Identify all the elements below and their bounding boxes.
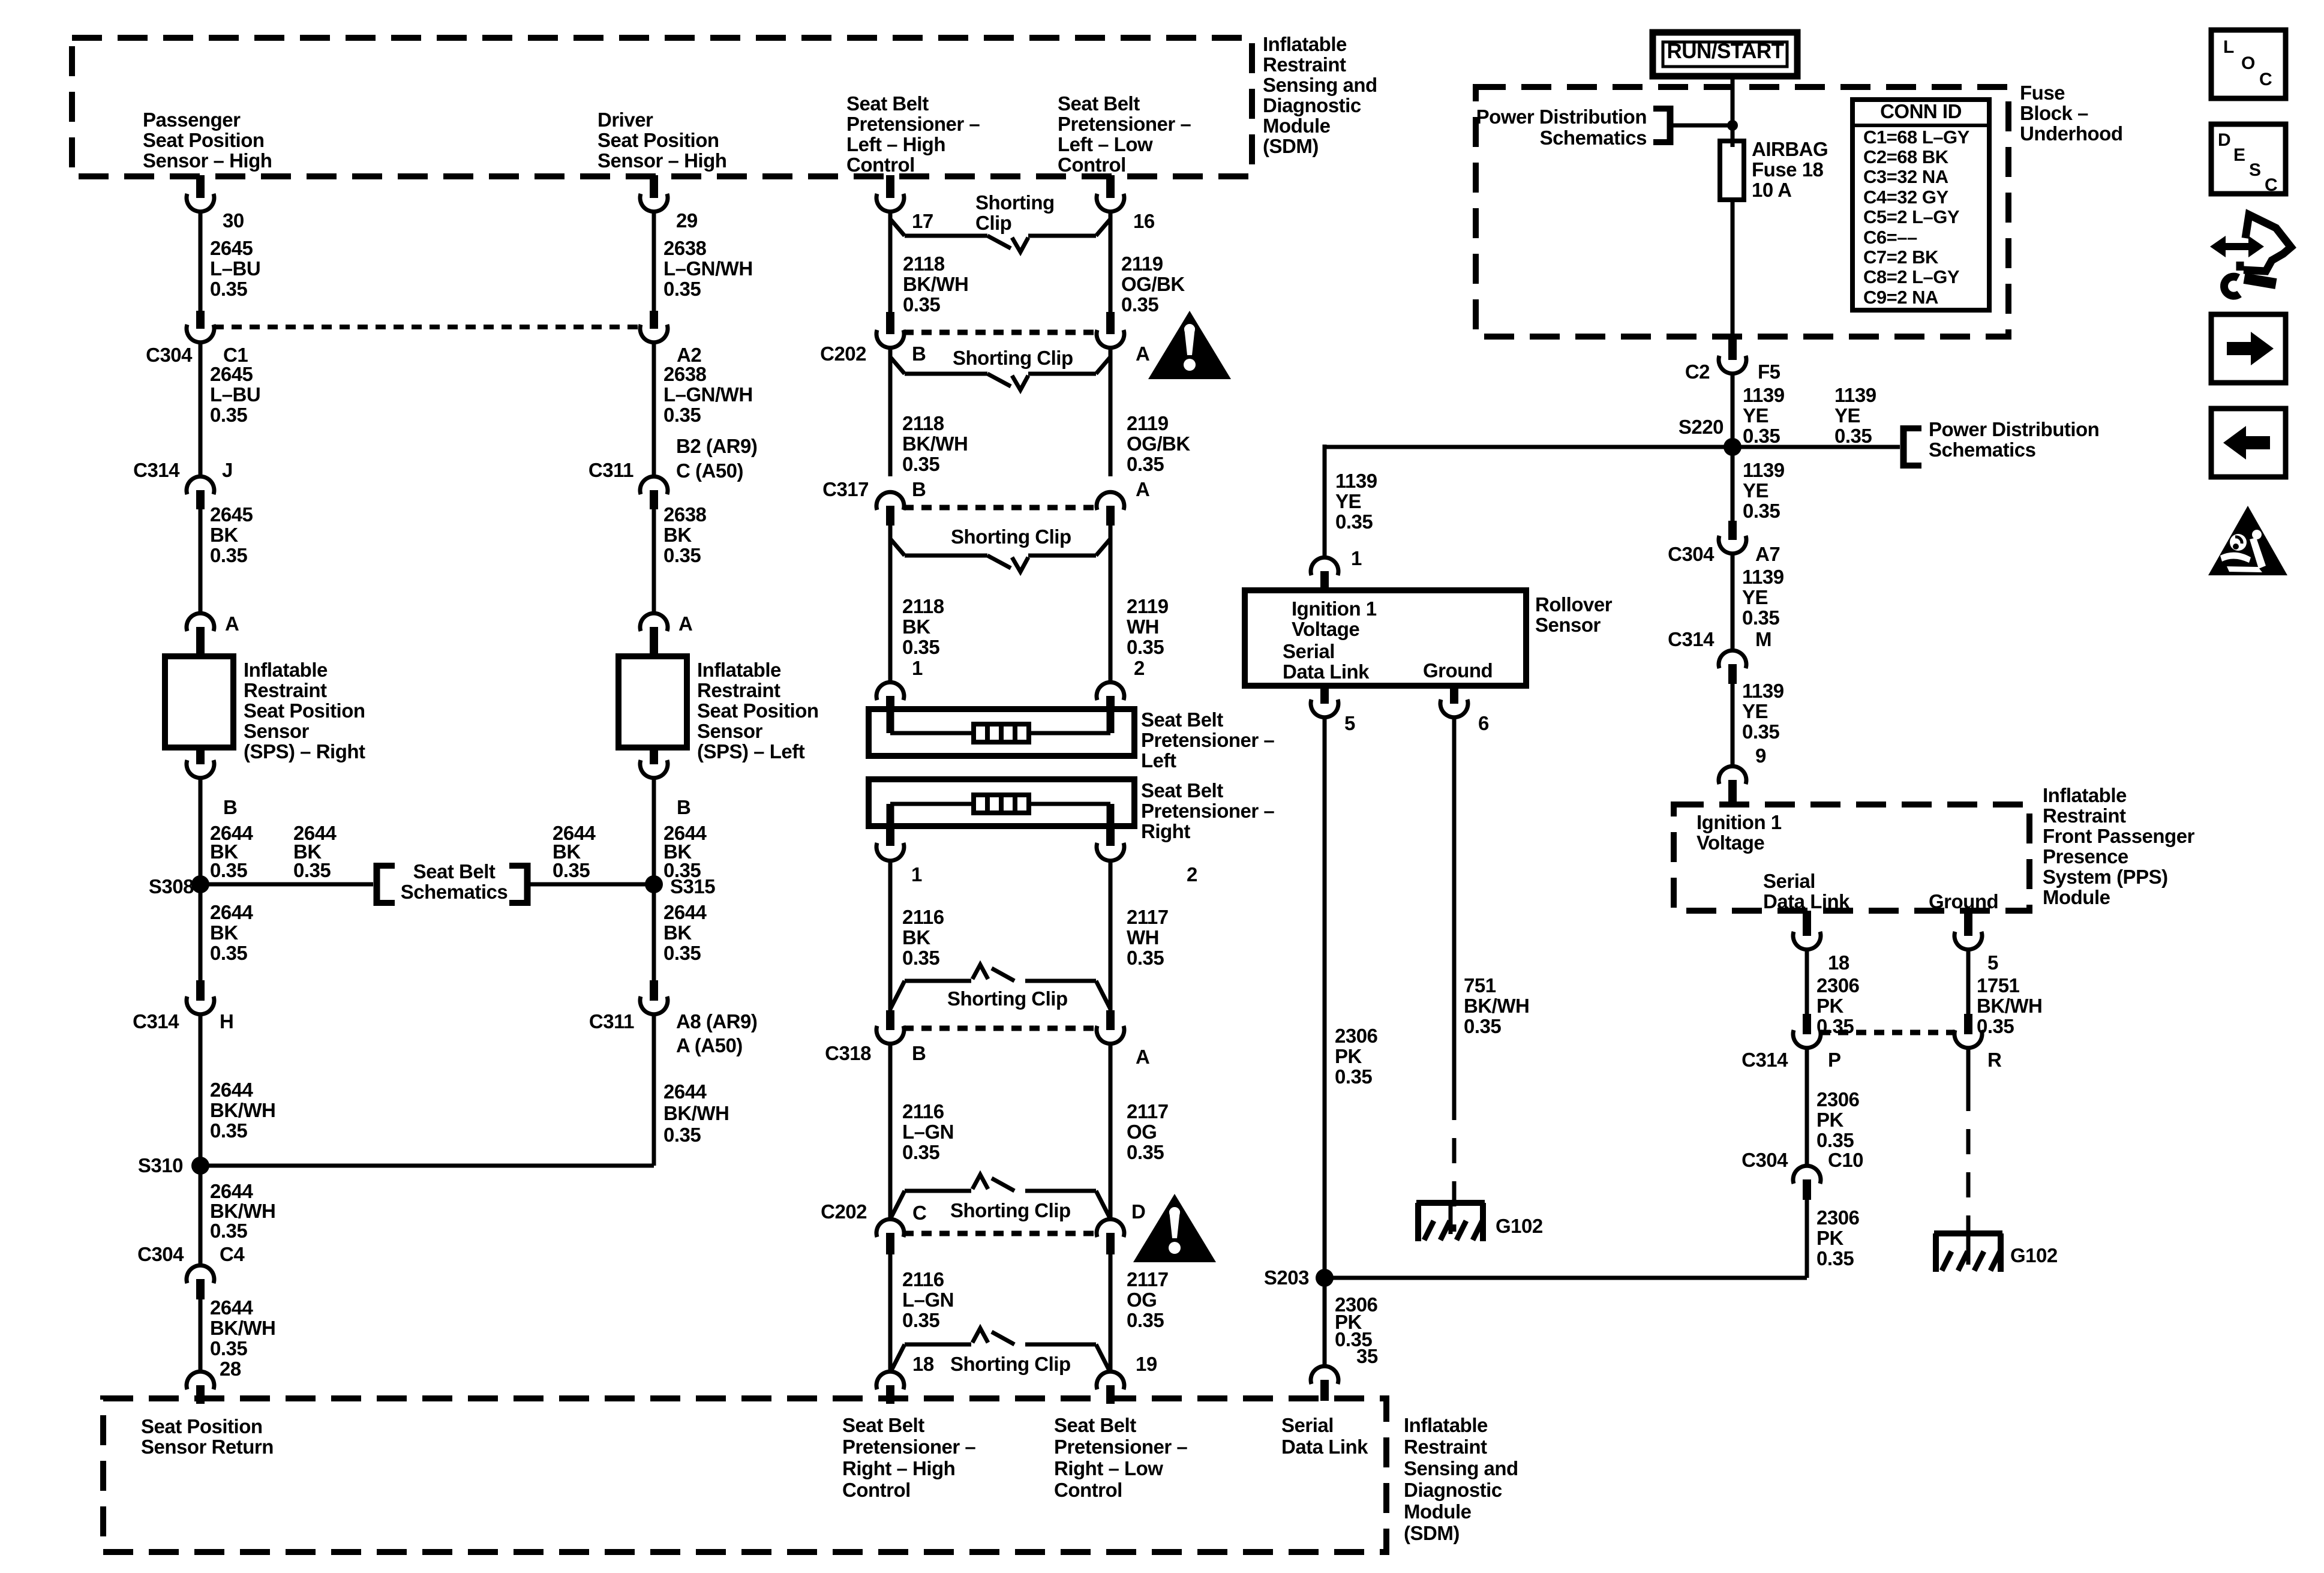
label: Ignition 1 Voltage (PPS) xyxy=(1697,811,1782,854)
svg-text:2638: 2638 xyxy=(663,503,707,526)
svg-text:Shorting Clip: Shorting Clip xyxy=(951,526,1071,548)
wire label 2644 BK 0.35 (below S315) xyxy=(663,901,707,964)
connector line C318 (dashed) xyxy=(903,1026,1097,1031)
svg-text:0.35: 0.35 xyxy=(1742,721,1779,743)
shorting clip symbol (above C202 C-D) xyxy=(890,1175,1110,1219)
pin label B (C318) xyxy=(912,1042,926,1064)
wire: down to rollover sensor pin 1 xyxy=(1323,445,1327,558)
svg-text:Passenger: Passenger xyxy=(143,109,241,131)
svg-text:35: 35 xyxy=(1356,1345,1378,1367)
svg-text:YE: YE xyxy=(1834,404,1860,427)
label C318 xyxy=(825,1042,871,1064)
svg-text:AIRBAG: AIRBAG xyxy=(1752,138,1828,160)
svg-text:Schematics: Schematics xyxy=(401,881,508,903)
svg-text:C: C xyxy=(2259,70,2272,89)
label: Inflatable Restraint Seat Position Sensor (SPS) - Left xyxy=(697,659,819,763)
svg-text:Rollover: Rollover xyxy=(1535,593,1613,616)
wire label 2638 BK 0.35 xyxy=(663,503,707,566)
svg-text:2119: 2119 xyxy=(1127,412,1169,434)
svg-text:2645: 2645 xyxy=(210,363,253,385)
label: Ground (PPS) xyxy=(1929,890,1998,912)
svg-text:Serial: Serial xyxy=(1763,870,1815,892)
pin label 5 (rollover) xyxy=(1344,712,1355,734)
connector: PPS pin 18 xyxy=(1793,911,1821,950)
wire: C317 B down to pretensioner left pin 1 xyxy=(888,526,893,682)
svg-text:0.35: 0.35 xyxy=(1743,425,1780,447)
svg-text:Ground: Ground xyxy=(1929,890,1998,912)
pin label F5 xyxy=(1758,361,1780,383)
connector line C317 (dashed) xyxy=(903,505,1097,511)
svg-text:YE: YE xyxy=(1742,700,1768,722)
wire label 2119 OG/BK 0.35 (middle) xyxy=(1127,412,1190,475)
svg-text:Control: Control xyxy=(846,154,915,176)
svg-text:B: B xyxy=(912,343,926,365)
wire label 2119 WH 0.35 xyxy=(1127,595,1169,658)
svg-text:B: B xyxy=(912,1042,926,1064)
svg-text:Restraint: Restraint xyxy=(2043,804,2126,827)
svg-text:2118: 2118 xyxy=(903,253,945,275)
wire: 2644 BK from SPS left B to S315 xyxy=(652,778,656,884)
svg-text:Sensor: Sensor xyxy=(697,720,763,742)
svg-text:C4=32 GY: C4=32 GY xyxy=(1863,187,1948,208)
svg-text:2644: 2644 xyxy=(210,901,254,923)
label: Power Distribution Schematics (right) xyxy=(1929,418,2099,461)
connector C311 pin B2/C xyxy=(640,476,668,509)
off-page bracket: power distribution (right) xyxy=(1903,425,1921,469)
svg-text:BK: BK xyxy=(902,926,930,948)
connector: pretensioner left pin 2 xyxy=(1097,682,1124,709)
wire label 2644 BK/WH 0.35 (bottom driver) xyxy=(663,1080,729,1146)
svg-text:A: A xyxy=(225,613,239,635)
svg-text:BK/WH: BK/WH xyxy=(1977,995,2042,1017)
connector: SPS right pin B xyxy=(187,748,214,778)
label: Shorting Clip (first) xyxy=(975,191,1055,234)
svg-text:C304: C304 xyxy=(146,344,193,366)
label C311 (driver lower) xyxy=(589,1010,634,1032)
wire label 2117 OG 0.35 (lower) xyxy=(1127,1268,1169,1331)
svg-text:2306: 2306 xyxy=(1816,974,1860,996)
label C202 (upper) xyxy=(820,343,866,365)
connector: pretensioner right pin 2 xyxy=(1097,826,1124,861)
svg-text:751: 751 xyxy=(1464,974,1496,996)
module box: Inflatable Restraint Sensing and Diagnostic Module (SDM) bottom, dashed outline xyxy=(103,1398,1386,1552)
fuse: AIRBAG Fuse 18 10A xyxy=(1720,141,1744,337)
wire: C202 A down to C317 A xyxy=(1109,348,1113,476)
wire: 2638 BK from C311 to SPS left pin A xyxy=(652,509,656,613)
wire: 2644 BK from SPS right B to S308 xyxy=(199,778,203,884)
svg-text:A7: A7 xyxy=(1755,543,1780,565)
connector line C304 (dashed) between C1 and A2 xyxy=(214,325,641,329)
svg-text:Pretensioner –: Pretensioner – xyxy=(1058,113,1191,135)
pin label B (SPS left) xyxy=(677,796,690,818)
pin label 1 (pretensioner left) xyxy=(912,657,923,679)
connector C304 pin C1 xyxy=(187,311,214,343)
junction S310 xyxy=(191,1157,209,1175)
svg-text:P: P xyxy=(1828,1049,1841,1071)
label: Ground (rollover box) xyxy=(1423,659,1493,682)
svg-text:C314: C314 xyxy=(1742,1049,1788,1071)
svg-text:Seat Belt: Seat Belt xyxy=(842,1414,924,1436)
svg-text:Left – Low: Left – Low xyxy=(1058,133,1153,155)
wire label 2644 BK 0.35 (above S308) xyxy=(210,822,254,881)
pin label A (C317) xyxy=(1136,478,1149,500)
wire: SDM pin 16 down to C202 A xyxy=(1109,212,1113,312)
svg-text:C10: C10 xyxy=(1828,1149,1863,1171)
svg-text:29: 29 xyxy=(676,209,698,232)
svg-text:30: 30 xyxy=(223,209,244,232)
pin label 9 (PPS) xyxy=(1755,745,1766,767)
pin label A8 (AR9) xyxy=(676,1010,757,1032)
wire: S310 down to C304 C4 xyxy=(199,1166,203,1265)
label: Seat Position Sensor Return xyxy=(141,1415,274,1458)
svg-text:YE: YE xyxy=(1335,490,1361,512)
connector: SDM pin 18 (bottom) xyxy=(876,1371,904,1404)
svg-text:0.35: 0.35 xyxy=(1742,607,1779,629)
svg-text:2638: 2638 xyxy=(663,363,707,385)
wire label 2117 WH 0.35 xyxy=(1127,906,1169,969)
svg-text:C202: C202 xyxy=(821,1200,867,1223)
label: Seat Belt Schematics xyxy=(401,860,508,903)
svg-text:Power Distribution: Power Distribution xyxy=(1929,418,2099,440)
label: Fuse Block - Underhood xyxy=(2020,82,2122,145)
icon: airbag caution triangle xyxy=(2208,506,2287,575)
svg-text:Right – High: Right – High xyxy=(842,1457,955,1479)
connector C202 pin D xyxy=(1097,1219,1124,1254)
wire label 2644 BK/WH 0.35 (bottom passenger) xyxy=(210,1296,275,1359)
svg-text:C9=2 NA: C9=2 NA xyxy=(1863,287,1938,308)
label: Ignition 1 Voltage (rollover box) xyxy=(1292,598,1377,640)
svg-text:Ignition 1: Ignition 1 xyxy=(1292,598,1377,620)
wire: 2644 BK/WH from C304 C4 to SDM pin 28 xyxy=(199,1299,203,1371)
svg-text:1139: 1139 xyxy=(1335,470,1377,492)
svg-text:S: S xyxy=(2249,160,2261,180)
label: Seat Belt Pretensioner - Right - Low Control xyxy=(1054,1414,1187,1501)
svg-text:L–GN/WH: L–GN/WH xyxy=(663,383,753,406)
connector: rollover pin 5 xyxy=(1311,686,1338,718)
wire label 1139 YE 0.35 (above S220 right) xyxy=(1834,384,1876,447)
connector: SDM pin 35 (bottom) xyxy=(1311,1366,1338,1401)
wire label 2644 BK 0.35 (below S308) xyxy=(210,901,254,964)
connector: SPS left pin A xyxy=(640,613,668,656)
wire label 2306 PK 0.35 (serial data link) xyxy=(1335,1025,1378,1088)
wire label 1139 YE 0.35 (M-9) xyxy=(1742,680,1784,743)
svg-text:H: H xyxy=(220,1010,233,1032)
svg-text:C202: C202 xyxy=(820,343,866,365)
svg-text:Sensing and: Sensing and xyxy=(1263,74,1377,96)
svg-text:Shorting Clip: Shorting Clip xyxy=(953,347,1073,369)
wire: SDM pin 17 down to C202 B xyxy=(888,212,893,312)
svg-text:Inflatable: Inflatable xyxy=(244,659,328,681)
label: Inflatable Restraint Seat Position Sensor (SPS) - Right xyxy=(244,659,365,763)
svg-text:0.35: 0.35 xyxy=(1121,293,1158,316)
pin label M xyxy=(1755,628,1771,650)
pin label A7 xyxy=(1755,543,1780,565)
wire label 2645 BK 0.35 xyxy=(210,503,253,566)
wire label 2117 OG 0.35 (upper) xyxy=(1127,1100,1169,1163)
svg-text:Data Link: Data Link xyxy=(1283,661,1370,683)
label: Inflatable Restraint Sensing and Diagnostic Module (SDM) xyxy=(1263,33,1377,157)
svg-text:Serial: Serial xyxy=(1281,1414,1334,1436)
wire label 751 BK/WH 0.35 xyxy=(1464,974,1529,1037)
label: Inflatable Restraint Front Passenger Presence System (PPS) Module xyxy=(2043,784,2195,908)
svg-text:Seat Belt: Seat Belt xyxy=(846,92,929,115)
svg-text:Power Distribution: Power Distribution xyxy=(1476,106,1647,128)
svg-text:G102: G102 xyxy=(2010,1244,2058,1266)
svg-text:System (PPS): System (PPS) xyxy=(2043,866,2168,888)
svg-text:R: R xyxy=(1987,1049,2002,1071)
svg-text:OG/BK: OG/BK xyxy=(1121,273,1185,295)
pin label C (C202) xyxy=(912,1202,926,1224)
svg-text:2644: 2644 xyxy=(663,901,707,923)
connector: SDM pin 30 xyxy=(187,175,214,212)
fuse block box (dashed): Fuse Block - Underhood xyxy=(1476,87,2008,337)
svg-text:WH: WH xyxy=(1127,926,1159,948)
wire: 2645 BK from C314 J to SPS right pin A xyxy=(199,509,203,613)
pin label 1 (rollover) xyxy=(1351,547,1362,569)
svg-text:Restraint: Restraint xyxy=(1263,53,1346,76)
svg-text:0.35: 0.35 xyxy=(1816,1247,1854,1269)
label: Shorting Clip (second) xyxy=(953,347,1073,369)
wire: S203 down to SDM pin 35 xyxy=(1323,1278,1327,1366)
warning triangle (lower) xyxy=(1133,1194,1216,1262)
label C311 (driver upper) xyxy=(588,459,633,481)
label: Rollover Sensor xyxy=(1535,593,1613,636)
connector C311 pin A8/A xyxy=(640,980,668,1014)
wire: PPS 5 down to C314 R xyxy=(1966,950,1971,1015)
svg-text:Seat Position: Seat Position xyxy=(597,129,719,151)
svg-text:C2: C2 xyxy=(1685,361,1710,383)
pin label H xyxy=(220,1010,233,1032)
svg-text:PK: PK xyxy=(1816,1227,1844,1249)
svg-text:E: E xyxy=(2233,145,2245,165)
svg-text:0.35: 0.35 xyxy=(663,544,701,566)
svg-text:18: 18 xyxy=(1828,951,1849,974)
svg-text:2117: 2117 xyxy=(1127,1100,1169,1122)
svg-text:C304: C304 xyxy=(1668,543,1715,565)
svg-text:1139: 1139 xyxy=(1742,566,1784,588)
svg-text:C2=68 BK: C2=68 BK xyxy=(1863,146,1949,167)
connector: pretensioner left pin 1 xyxy=(876,682,904,709)
svg-text:0.35: 0.35 xyxy=(210,1119,247,1142)
pin label B2 (AR9) xyxy=(676,435,757,457)
svg-text:BK/WH: BK/WH xyxy=(210,1200,275,1222)
wire label 1139 YE 0.35 (rollover feed) xyxy=(1335,470,1377,533)
svg-text:0.35: 0.35 xyxy=(210,859,247,881)
svg-text:C7=2 BK: C7=2 BK xyxy=(1863,247,1939,268)
label RUN/START xyxy=(1667,40,1783,63)
svg-text:Left – High: Left – High xyxy=(846,133,945,155)
svg-text:Fuse 18: Fuse 18 xyxy=(1752,158,1824,181)
label S220 xyxy=(1679,416,1724,438)
wire: node into AIRBAG fuse xyxy=(1731,125,1735,147)
svg-text:0.35: 0.35 xyxy=(553,859,590,881)
svg-text:Sensor Return: Sensor Return xyxy=(141,1436,274,1458)
connector C317 pin A xyxy=(1097,492,1124,526)
ground symbol G102 (right) xyxy=(1934,1233,2002,1272)
svg-text:S308: S308 xyxy=(149,875,194,897)
wire label 2645 L-BU 0.35 (below C304) xyxy=(210,363,260,426)
svg-text:5: 5 xyxy=(1987,951,1998,974)
wire: pretensioner right pin 1 down to C318 B xyxy=(888,861,893,1015)
svg-text:A: A xyxy=(1136,478,1149,500)
svg-text:Seat Belt: Seat Belt xyxy=(1058,92,1140,115)
svg-text:Restraint: Restraint xyxy=(1404,1436,1487,1458)
svg-text:S220: S220 xyxy=(1679,416,1724,438)
svg-text:BK/WH: BK/WH xyxy=(902,433,968,455)
svg-text:Pretensioner –: Pretensioner – xyxy=(1141,800,1274,822)
connector C304 pin C4 xyxy=(187,1265,214,1299)
connector line C314 P-R (dashed) xyxy=(1820,1030,1955,1035)
svg-text:16: 16 xyxy=(1133,210,1155,232)
connector: rollover sensor pin 1 xyxy=(1311,557,1338,590)
wire: C202 D down to SDM pin 19 xyxy=(1109,1254,1113,1371)
svg-text:1751: 1751 xyxy=(1977,974,2020,996)
icon box forward arrow xyxy=(2211,314,2286,383)
svg-text:Data Link: Data Link xyxy=(1763,890,1850,912)
component box: Inflatable Restraint Seat Position Sensor (SPS) - Right xyxy=(165,656,233,748)
wire: S220 to power distribution bracket xyxy=(1733,445,1900,449)
pin label C4 xyxy=(220,1243,245,1265)
svg-text:Module: Module xyxy=(2043,886,2110,908)
pin label 18 (SDM) xyxy=(912,1353,934,1375)
label C314 (passenger lower) xyxy=(133,1010,179,1032)
svg-text:0.35: 0.35 xyxy=(210,942,247,964)
svg-text:2117: 2117 xyxy=(1127,906,1169,928)
svg-text:0.35: 0.35 xyxy=(1335,511,1373,533)
svg-text:2116: 2116 xyxy=(902,1100,944,1122)
label: Seat Belt Pretensioner - Left - High Control (SDM pin area) xyxy=(846,92,980,176)
pin label 2 (pretensioner right) xyxy=(1187,863,1197,885)
svg-text:C8=2 L–GY: C8=2 L–GY xyxy=(1863,266,1960,287)
wire: 2645 L-BU from SDM pin 30 to C304 xyxy=(199,212,203,315)
label C314 (passenger upper) xyxy=(133,459,180,481)
svg-text:Shorting: Shorting xyxy=(975,191,1055,214)
svg-text:0.35: 0.35 xyxy=(210,544,247,566)
pin label 28 xyxy=(220,1358,241,1380)
wire: S310 horizontal to driver column xyxy=(200,1164,654,1168)
wire label 2116 L-GN 0.35 (upper) xyxy=(902,1100,954,1163)
svg-text:Shorting Clip: Shorting Clip xyxy=(947,987,1068,1010)
svg-text:2644: 2644 xyxy=(663,1080,707,1103)
svg-text:PK: PK xyxy=(1816,995,1844,1017)
wire label 2644 BK/WH 0.35 (above S310) xyxy=(210,1079,275,1142)
connector: SPS left pin B xyxy=(640,748,668,778)
connector: PPS pin 9 xyxy=(1719,766,1746,804)
svg-text:C (A50): C (A50) xyxy=(676,460,743,482)
pin label A (C202) xyxy=(1136,343,1149,365)
svg-text:28: 28 xyxy=(220,1358,241,1380)
shorting clip symbol (above C318) xyxy=(890,965,1110,1009)
pin label 35 (SDM) xyxy=(1356,1345,1378,1367)
wire: S220 down to C304 A7 xyxy=(1731,447,1735,522)
label C304 (passenger bottom) xyxy=(137,1243,184,1265)
svg-text:0.35: 0.35 xyxy=(1335,1065,1372,1088)
wire label 1139 YE 0.35 (below S220) xyxy=(1743,459,1785,522)
svg-text:2644: 2644 xyxy=(210,1296,254,1319)
wire: C2 F5 to S220 xyxy=(1731,374,1735,447)
svg-text:A: A xyxy=(1136,343,1149,365)
ground symbol G102 (left) xyxy=(1416,1203,1485,1241)
svg-text:L–BU: L–BU xyxy=(210,383,260,406)
svg-text:YE: YE xyxy=(1743,404,1768,427)
pin label B (C202) xyxy=(912,343,926,365)
wire label 2638 L-GN/WH 0.35 (below C304 driver) xyxy=(663,363,753,426)
svg-text:2118: 2118 xyxy=(902,595,944,617)
pin label B (SPS right) xyxy=(223,796,237,818)
wire label 2644 BK/WH 0.35 (below S310) xyxy=(210,1180,275,1242)
off-page bracket left: Seat Belt Schematics xyxy=(377,863,395,906)
wire: rollover ground dashed segment xyxy=(1452,1095,1457,1232)
svg-text:1139: 1139 xyxy=(1742,680,1784,702)
svg-text:BK/WH: BK/WH xyxy=(1464,995,1529,1017)
svg-text:Inflatable: Inflatable xyxy=(1263,33,1347,55)
svg-text:C4: C4 xyxy=(220,1243,245,1265)
pin label 17 xyxy=(912,210,933,232)
wire: C314 R dashed down to G102 xyxy=(1966,1048,1971,1232)
icon box LOC xyxy=(2211,30,2286,98)
warning triangle (upper) xyxy=(1148,311,1231,379)
pin label C10 xyxy=(1828,1149,1863,1171)
svg-text:C6=––: C6=–– xyxy=(1863,227,1917,248)
svg-text:BK: BK xyxy=(210,524,238,546)
pin label A (SPS right) xyxy=(225,613,239,635)
svg-text:(SPS) – Left: (SPS) – Left xyxy=(697,740,805,763)
svg-text:Seat Position: Seat Position xyxy=(697,700,819,722)
wire label 2644 BK 0.35 (right of seat belt bracket) xyxy=(553,822,596,881)
svg-text:1: 1 xyxy=(1351,547,1362,569)
svg-text:C314: C314 xyxy=(1668,628,1715,650)
svg-text:Sensor: Sensor xyxy=(244,720,310,742)
svg-text:OG/BK: OG/BK xyxy=(1127,433,1190,455)
svg-text:YE: YE xyxy=(1742,586,1768,608)
wire label 2119 OG/BK 0.35 (upper) xyxy=(1121,253,1185,316)
connector C318 pin B xyxy=(876,1010,904,1044)
label C317 xyxy=(822,478,869,500)
label: AIRBAG Fuse 18 10 A xyxy=(1752,138,1828,201)
pin label R xyxy=(1987,1049,2002,1071)
svg-text:0.35: 0.35 xyxy=(1127,1309,1164,1331)
wire: 2645 L-BU from C304 C1 to C314 J xyxy=(199,343,203,476)
svg-text:Block –: Block – xyxy=(2020,102,2088,124)
label S308 xyxy=(149,875,194,897)
svg-text:0.35: 0.35 xyxy=(1127,1141,1164,1163)
icon: check service info (arrows and wrench) xyxy=(2210,215,2291,296)
connector C317 pin B xyxy=(876,492,904,526)
shorting clip symbol (C317) xyxy=(890,539,1110,572)
svg-text:Schematics: Schematics xyxy=(1540,127,1647,149)
wire label 1751 BK/WH 0.35 xyxy=(1977,974,2042,1037)
svg-text:0.35: 0.35 xyxy=(1127,947,1164,969)
svg-text:Shorting Clip: Shorting Clip xyxy=(950,1353,1071,1375)
label G102 (right) xyxy=(2010,1244,2058,1266)
label CONN ID xyxy=(1880,100,1962,122)
label: Serial Data Link (PPS) xyxy=(1763,870,1850,912)
svg-text:Left: Left xyxy=(1141,749,1176,772)
connector C314 pin M xyxy=(1719,650,1746,684)
conn id table box xyxy=(1852,100,1989,310)
svg-text:Seat Position: Seat Position xyxy=(244,700,365,722)
svg-text:BK/WH: BK/WH xyxy=(903,273,968,295)
svg-text:C314: C314 xyxy=(133,459,180,481)
pin label A2 xyxy=(677,344,701,366)
svg-text:Underhood: Underhood xyxy=(2020,122,2122,145)
wire label 2116 L-GN 0.35 (lower) xyxy=(902,1268,954,1331)
svg-text:C1=68 L–GY: C1=68 L–GY xyxy=(1863,127,1970,148)
svg-text:CONN ID: CONN ID xyxy=(1880,100,1962,122)
shorting clip symbol (pins 18-19) xyxy=(890,1328,1110,1373)
svg-text:0.35: 0.35 xyxy=(210,1337,247,1359)
connector: rollover pin 6 xyxy=(1440,686,1468,718)
